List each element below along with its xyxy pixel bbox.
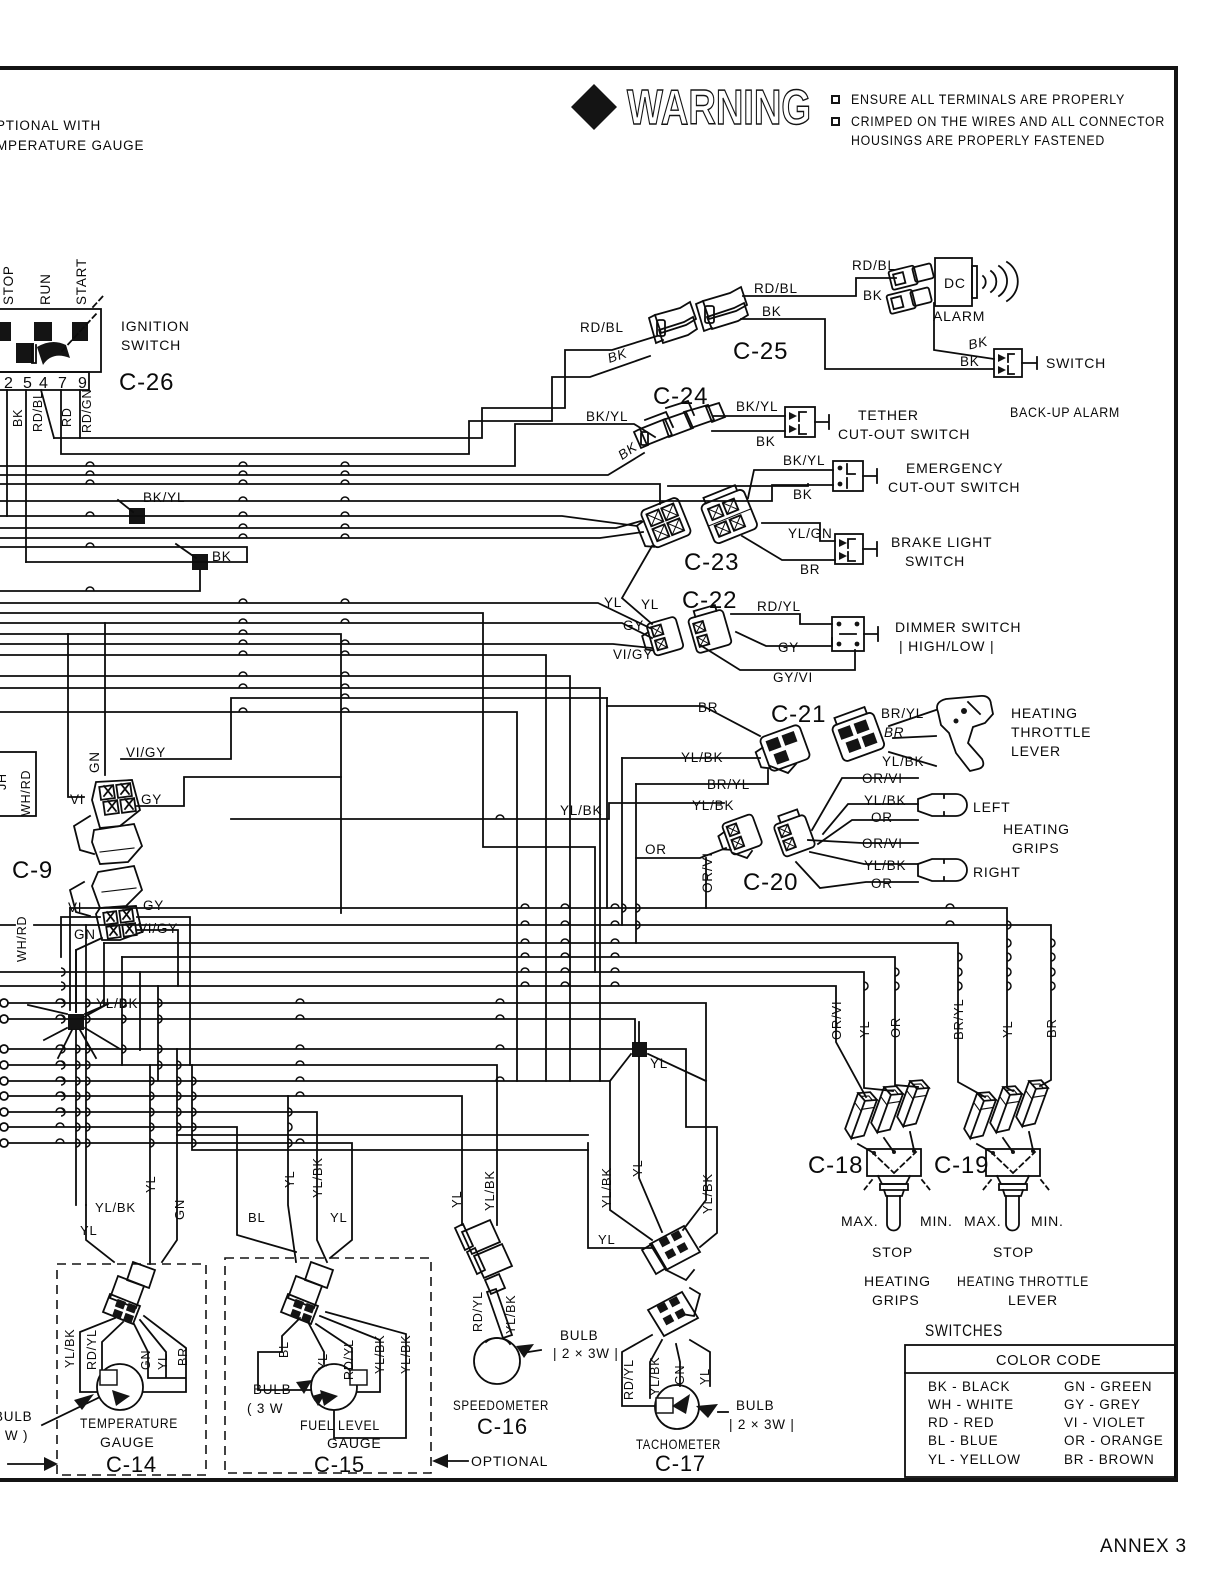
svg-text:C-25: C-25 — [733, 338, 788, 365]
svg-text:ANNEX 3: ANNEX 3 — [1100, 1536, 1187, 1557]
svg-text:SWITCHES: SWITCHES — [925, 1322, 1003, 1340]
svg-text:YL: YL — [857, 1020, 872, 1038]
wire GY/VI to dimmer — [700, 645, 855, 670]
svg-text:COLOR CODE: COLOR CODE — [996, 1353, 1102, 1369]
emergency cut-out switch — [833, 461, 877, 491]
C-18 pin 2 — [869, 1082, 905, 1136]
svg-text:7: 7 — [58, 375, 68, 392]
fuel bulb arrowheads — [296, 1380, 312, 1394]
svg-text:OR: OR — [645, 842, 667, 857]
C-15 connector — [281, 1262, 333, 1324]
bus line y972 YL — [0, 972, 893, 1091]
svg-text:C-9: C-9 — [12, 857, 53, 884]
svg-text:GN: GN — [673, 1365, 687, 1385]
svg-text:RD/BL: RD/BL — [754, 281, 798, 296]
svg-text:STOP: STOP — [993, 1244, 1034, 1260]
wire VI from C-9 — [68, 634, 84, 797]
svg-text:GN: GN — [74, 927, 96, 942]
svg-text:BL: BL — [277, 1341, 291, 1358]
wire YL/BK to C-20 — [231, 803, 724, 819]
C-16 stem — [487, 1289, 512, 1338]
wire BR/YL under C-21 — [636, 770, 768, 784]
C-9 connector upper — [74, 780, 142, 864]
gauge needle arrow — [112, 1390, 130, 1406]
wire hop bumps vertical — [86, 904, 1055, 1147]
junction YL/BK bottom left — [68, 1014, 84, 1030]
svg-text:BK - BLACK: BK - BLACK — [928, 1379, 1010, 1394]
wire YL C-23 to C-22 — [622, 546, 652, 624]
speedo stem cap — [486, 1338, 510, 1344]
svg-text:C-22: C-22 — [682, 587, 737, 614]
svg-text:OR: OR — [871, 810, 893, 825]
bus line y986 OR/VI — [0, 986, 866, 1097]
svg-text:BR/YL: BR/YL — [707, 777, 750, 792]
alarm sound waves — [983, 262, 1018, 301]
dimmer switch — [832, 617, 878, 651]
svg-text:MIN.: MIN. — [1031, 1213, 1064, 1229]
junction BK — [192, 554, 208, 570]
hops col61 76 — [61, 968, 80, 1147]
wire BK to back-up alarm switch — [741, 319, 993, 369]
wire YL/BK C-21 vertical — [621, 758, 623, 925]
svg-text:YL: YL — [449, 1190, 464, 1208]
svg-text:WARNING: WARNING — [627, 81, 811, 135]
svg-text:YL/BK: YL/BK — [681, 750, 723, 765]
bottom bus y1003 — [8, 1003, 706, 1230]
svg-text:GAUGE: GAUGE — [100, 1434, 155, 1450]
svg-text:YL: YL — [156, 1353, 170, 1370]
wire BK to C-25 lower — [61, 356, 650, 454]
svg-text:IGNITION: IGNITION — [121, 318, 190, 334]
warning diamond — [571, 84, 617, 130]
svg-text:YL: YL — [143, 1175, 158, 1193]
svg-text:BULB: BULB — [253, 1382, 291, 1397]
svg-text:HOUSINGS ARE PROPERLY FASTENED: HOUSINGS ARE PROPERLY FASTENED — [851, 133, 1105, 148]
bus line y908 YL — [70, 908, 1013, 1091]
svg-text:( 3 W: ( 3 W — [247, 1401, 283, 1416]
svg-text:GN: GN — [87, 751, 102, 773]
svg-text:RD/YL: RD/YL — [85, 1329, 99, 1370]
gauge terminal — [100, 1370, 117, 1385]
C-20 connector left — [715, 813, 763, 857]
wire hop bumps — [56, 462, 954, 1143]
wire YL to C-22 — [0, 603, 650, 628]
svg-text:YL/BK: YL/BK — [882, 754, 924, 769]
C-9 connector lower — [70, 866, 142, 940]
C-19 switch body — [983, 1149, 1049, 1231]
svg-text:RIGHT: RIGHT — [973, 864, 1021, 880]
svg-text:GY - GREY: GY - GREY — [1064, 1397, 1141, 1412]
svg-text:SWITCH: SWITCH — [121, 337, 181, 353]
svg-text:RD: RD — [60, 407, 74, 427]
right grip icon — [918, 859, 967, 881]
svg-text:GAUGE: GAUGE — [327, 1435, 382, 1451]
fuel gauge circle — [311, 1364, 357, 1410]
svg-text:2: 2 — [4, 375, 14, 392]
svg-text:MPERATURE GAUGE: MPERATURE GAUGE — [0, 138, 144, 153]
C-16 connector — [455, 1220, 512, 1294]
svg-text:BRAKE LIGHT: BRAKE LIGHT — [891, 534, 992, 550]
svg-text:WH/RD: WH/RD — [19, 770, 33, 816]
svg-text:YL/BK: YL/BK — [63, 1329, 77, 1368]
C-17 wire loop — [622, 1335, 710, 1406]
wire BK to C-23 — [0, 484, 660, 504]
wire YL/BK to C-21 — [622, 757, 760, 759]
wire YL/GN to brake — [762, 523, 835, 541]
svg-text:YL: YL — [630, 1159, 645, 1177]
svg-text:BULB: BULB — [560, 1328, 598, 1343]
wire RD/YL to dimmer — [731, 614, 832, 624]
svg-text:GRIPS: GRIPS — [1012, 840, 1060, 856]
svg-text:START: START — [74, 258, 89, 305]
svg-text:VI/GY: VI/GY — [138, 921, 178, 936]
svg-text:RD/YL: RD/YL — [471, 1291, 485, 1332]
svg-text:YL/GN: YL/GN — [788, 526, 833, 541]
C-19 pin leads — [977, 1132, 1033, 1152]
bus line y655 — [0, 655, 546, 1081]
wire t5 vertical — [25, 390, 27, 562]
svg-text:GY/VI: GY/VI — [773, 670, 813, 685]
wire BK to emergency — [668, 484, 808, 486]
svg-text:C-20: C-20 — [743, 869, 798, 896]
wire t4 diagonal — [41, 390, 54, 438]
wire BR to brake — [742, 536, 835, 560]
wire t2 vertical — [6, 390, 8, 516]
wire BK to C-24 — [0, 453, 644, 475]
svg-text:YL/BK: YL/BK — [310, 1157, 325, 1198]
svg-text:C-26: C-26 — [119, 369, 174, 396]
wire BR vertical — [606, 698, 608, 908]
alarm plug 2 — [886, 285, 932, 314]
svg-text:LEVER: LEVER — [1008, 1292, 1058, 1308]
svg-text:BR: BR — [1044, 1018, 1059, 1038]
svg-text:YL/BK: YL/BK — [399, 1335, 413, 1374]
svg-text:BULB: BULB — [0, 1409, 32, 1424]
wire OR/VI vertical — [705, 858, 707, 908]
svg-text:C-24: C-24 — [653, 383, 708, 410]
brake light switch — [835, 534, 877, 564]
svg-text:BR: BR — [698, 700, 718, 715]
C-22 connector left — [639, 616, 684, 658]
tach terminal — [656, 1398, 673, 1413]
wire BK to tether — [712, 430, 785, 432]
wire WH upper — [0, 521, 641, 528]
svg-text:BULB: BULB — [736, 1398, 774, 1413]
svg-text:YL/BK: YL/BK — [482, 1170, 497, 1211]
svg-text:GY: GY — [778, 640, 799, 655]
svg-text:VI/GY: VI/GY — [126, 745, 166, 760]
emergency wire BK/YL from C-23 — [748, 470, 833, 498]
svg-text:YL: YL — [330, 1210, 348, 1225]
svg-text:TEMPERATURE: TEMPERATURE — [80, 1415, 178, 1431]
C-18 pin 1 — [843, 1088, 879, 1142]
wire WH lower — [0, 532, 643, 538]
C-18 pin leads — [858, 1132, 914, 1152]
svg-text:RD/BL: RD/BL — [580, 320, 624, 335]
svg-text:BK/YL: BK/YL — [143, 490, 185, 505]
bottom bus y1135 — [177, 1049, 588, 1135]
svg-text:BACK-UP ALARM: BACK-UP ALARM — [1010, 404, 1120, 420]
svg-text:BK/YL: BK/YL — [586, 409, 628, 424]
junction BK feed diagonal — [176, 544, 196, 558]
svg-text:C-18: C-18 — [808, 1152, 863, 1179]
fuel gauge terminal — [350, 1370, 367, 1385]
svg-text:YL/BK: YL/BK — [95, 1200, 136, 1215]
wire BK/YL to C-24 — [0, 424, 655, 466]
svg-text:C-16: C-16 — [477, 1414, 528, 1439]
C-14 connector — [103, 1262, 155, 1324]
warning bullet 1 — [832, 96, 839, 103]
svg-text:VI/GY: VI/GY — [613, 647, 653, 662]
svg-text:BK/YL: BK/YL — [736, 399, 778, 414]
svg-text:STOP: STOP — [872, 1244, 913, 1260]
svg-text:OR - ORANGE: OR - ORANGE — [1064, 1433, 1164, 1448]
junction YL — [632, 1042, 647, 1057]
svg-text:RD - RED: RD - RED — [928, 1415, 994, 1430]
wire BK junction line — [26, 561, 247, 563]
wire GY to C-22 — [0, 623, 652, 638]
svg-text:BR - BROWN: BR - BROWN — [1064, 1452, 1155, 1467]
bottom bus y1081 — [8, 1081, 652, 1240]
heating grips right wires — [796, 840, 918, 888]
svg-text:HEATING: HEATING — [1011, 705, 1078, 721]
speedometer circle — [474, 1338, 520, 1384]
C-23 connector right — [698, 483, 759, 545]
svg-text:GN - GREEN: GN - GREEN — [1064, 1379, 1152, 1394]
svg-text:YL: YL — [316, 1353, 330, 1370]
svg-text:EMERGENCY: EMERGENCY — [906, 460, 1003, 476]
C-14 dashed box — [57, 1264, 206, 1475]
wire GY to dimmer — [736, 632, 832, 646]
svg-text:YL/BK: YL/BK — [692, 798, 734, 813]
C-18 switch body — [864, 1149, 930, 1231]
C-19 pin 2 — [988, 1082, 1024, 1136]
svg-text:GY: GY — [623, 618, 644, 633]
color code box — [905, 1345, 1175, 1477]
svg-text:BR: BR — [800, 562, 820, 577]
fuel feed YL — [288, 1096, 296, 1262]
bus line y688 — [0, 688, 600, 1081]
svg-text:CUT-OUT SWITCH: CUT-OUT SWITCH — [888, 479, 1020, 495]
svg-text:C-19: C-19 — [934, 1152, 989, 1179]
junction BK/YL — [129, 508, 145, 524]
svg-text:SPEEDOMETER: SPEEDOMETER — [453, 1397, 549, 1413]
svg-text:HEATING THROTTLE: HEATING THROTTLE — [957, 1273, 1089, 1289]
bus line y634 — [0, 634, 341, 913]
svg-text:BK: BK — [756, 434, 776, 449]
C-24 connector — [634, 401, 725, 448]
svg-text:WH - WHITE: WH - WHITE — [928, 1397, 1014, 1412]
svg-text:YL/BK: YL/BK — [864, 793, 906, 808]
C-20 connector right — [771, 808, 816, 858]
junction YL rays — [610, 1022, 706, 1232]
tach needle arrow — [672, 1394, 690, 1414]
svg-text:CUT-OUT SWITCH: CUT-OUT SWITCH — [838, 426, 970, 442]
C-9 lower wires — [61, 917, 190, 1065]
svg-text:BR: BR — [884, 725, 904, 740]
wire BR/YL C-21 vertical — [635, 784, 637, 943]
back-up alarm switch — [994, 349, 1037, 377]
C-21 connector left — [752, 724, 811, 775]
wire VI/GY from C-9 — [121, 698, 607, 759]
tach loop YL — [588, 1143, 651, 1248]
svg-text:VI: VI — [70, 792, 84, 807]
svg-text:DIMMER SWITCH: DIMMER SWITCH — [895, 619, 1021, 635]
svg-text:OR/VI: OR/VI — [829, 1001, 844, 1040]
wire BK/YL to tether — [713, 415, 785, 417]
svg-text:YL: YL — [1000, 1020, 1015, 1038]
svg-text:ENSURE ALL TERMINALS ARE PROPE: ENSURE ALL TERMINALS ARE PROPERLY — [851, 92, 1125, 107]
svg-text:MIN.: MIN. — [920, 1213, 953, 1229]
svg-text:RD/YL: RD/YL — [342, 1339, 356, 1380]
C-19 pin 1 — [962, 1088, 998, 1142]
svg-text:GN: GN — [172, 1199, 187, 1220]
bottom bus y1143 — [8, 1143, 352, 1258]
bottom bus y1065 — [8, 1065, 497, 1225]
svg-text:VI - VIOLET: VI - VIOLET — [1064, 1415, 1146, 1430]
svg-text:OR: OR — [871, 876, 893, 891]
DC alarm box — [935, 258, 972, 306]
svg-text:OPTIONAL: OPTIONAL — [471, 1453, 548, 1469]
C-18 pin 3 — [895, 1076, 931, 1130]
temp feed left — [86, 1205, 114, 1262]
svg-text:MAX.: MAX. — [841, 1213, 878, 1229]
C-23 connector left — [632, 497, 691, 552]
svg-text:PTIONAL WITH: PTIONAL WITH — [0, 118, 101, 133]
svg-text:RD/YL: RD/YL — [622, 1359, 636, 1400]
svg-text:TETHER: TETHER — [858, 407, 919, 423]
svg-text:CRIMPED ON THE WIRES AND ALL C: CRIMPED ON THE WIRES AND ALL CONNECTOR — [851, 114, 1165, 129]
svg-text:GY: GY — [143, 898, 164, 913]
C-17 connector upper — [642, 1226, 700, 1280]
svg-text:RUN: RUN — [38, 273, 53, 305]
svg-text:YL/BK: YL/BK — [700, 1173, 715, 1214]
fuel needle arrow — [320, 1390, 338, 1406]
C-25 connector pair — [649, 287, 748, 343]
bottom bus y1019 — [8, 1019, 635, 1042]
wire GY from C-9 — [137, 777, 341, 806]
bus line y613 — [0, 613, 595, 972]
arrow into C-14 box — [8, 1463, 44, 1465]
svg-text:STOP: STOP — [1, 265, 16, 305]
svg-text:OR/VI: OR/VI — [700, 852, 715, 893]
svg-text:THROTTLE: THROTTLE — [1011, 724, 1091, 740]
svg-text:YL/BK: YL/BK — [504, 1295, 518, 1334]
svg-text:BK: BK — [960, 354, 980, 369]
svg-text:YL - YELLOW: YL - YELLOW — [928, 1452, 1021, 1467]
svg-text:JH: JH — [0, 773, 9, 790]
svg-text:YL: YL — [641, 597, 659, 612]
svg-text:BR/YL: BR/YL — [951, 998, 966, 1040]
temp GN loop — [162, 1135, 177, 1262]
svg-text:C-23: C-23 — [684, 549, 739, 576]
wire t9 vertical — [79, 390, 81, 438]
bottom bus y1150 — [192, 1065, 588, 1150]
bottom bus y1049 — [8, 1049, 717, 1247]
svg-text:FUEL LEVEL: FUEL LEVEL — [300, 1417, 380, 1433]
svg-text:MAX.: MAX. — [964, 1213, 1001, 1229]
heating grips left wires — [812, 778, 918, 844]
C-15 wire loop — [258, 1312, 406, 1438]
C-19 pin 3 — [1014, 1076, 1050, 1130]
wire RD/BL to alarm — [743, 278, 896, 296]
svg-text:GN: GN — [139, 1350, 153, 1370]
svg-text:RD/YL: RD/YL — [757, 599, 801, 614]
bulb arrow line — [42, 1398, 98, 1425]
C-17 connector lower — [648, 1288, 700, 1336]
svg-text:BL: BL — [248, 1210, 266, 1225]
svg-text:YL: YL — [282, 1170, 297, 1188]
C-22 connector right — [686, 603, 732, 653]
bus line y943 BR/YL — [104, 943, 985, 1097]
left edge terminals — [0, 999, 8, 1147]
wire y547 — [0, 547, 247, 562]
svg-text:BK: BK — [793, 487, 813, 502]
svg-text:OR/VI: OR/VI — [862, 836, 903, 851]
wire GN from C-9 up — [104, 623, 106, 775]
svg-text:3 W ): 3 W ) — [0, 1428, 28, 1443]
svg-text:GRIPS: GRIPS — [872, 1292, 920, 1308]
svg-text:YL/BK: YL/BK — [560, 803, 602, 818]
wire OR to C-20 — [636, 848, 726, 858]
svg-text:C-17: C-17 — [655, 1451, 706, 1476]
svg-text:BK: BK — [863, 288, 883, 303]
tachometer circle — [655, 1385, 699, 1429]
svg-text:YL/BK: YL/BK — [864, 858, 906, 873]
svg-text:BK: BK — [762, 304, 782, 319]
svg-text:| HIGH/LOW |: | HIGH/LOW | — [899, 638, 994, 654]
wire BK/YL junction line to C-23 — [0, 516, 637, 526]
bus line y957 OR — [122, 957, 918, 1087]
bus line y712 — [0, 712, 517, 1081]
svg-text:BL - BLUE: BL - BLUE — [928, 1433, 998, 1448]
svg-text:HEATING: HEATING — [864, 1273, 931, 1289]
svg-text:SWITCH: SWITCH — [1046, 355, 1106, 371]
junction feed diagonal — [118, 500, 133, 512]
optional arrow — [432, 1454, 448, 1468]
bottom bus y1112 — [8, 1112, 327, 1262]
svg-text:| 2 × 3W |: | 2 × 3W | — [553, 1346, 619, 1361]
wire BK junction down — [0, 570, 200, 591]
heating throttle lever icon — [937, 696, 993, 771]
svg-text:BR/YL: BR/YL — [881, 706, 924, 721]
svg-text:BK: BK — [11, 409, 25, 427]
ignition switch C-26 — [0, 295, 104, 392]
svg-text:BK/YL: BK/YL — [783, 453, 825, 468]
wire BK to emergency — [0, 485, 833, 501]
wire VI/GY to C-22 — [0, 644, 652, 648]
svg-text:YL/BK: YL/BK — [648, 1357, 662, 1396]
svg-text:5: 5 — [23, 375, 33, 392]
C-14 wire loop — [80, 1316, 186, 1392]
bus line y676 — [0, 676, 570, 1081]
bulb arrowhead — [74, 1394, 94, 1410]
junction YL/BK rays — [28, 950, 120, 1205]
svg-text:YL: YL — [598, 1232, 616, 1247]
svg-text:YL: YL — [80, 1223, 98, 1238]
svg-text:C-21: C-21 — [771, 701, 826, 728]
C-15 dashed box — [225, 1258, 431, 1473]
tether cut-out switch — [785, 407, 829, 437]
svg-text:C-14: C-14 — [106, 1452, 157, 1477]
svg-text:YL: YL — [698, 1368, 712, 1385]
warning bullet 2 — [832, 118, 839, 125]
speedo bulb arrow — [522, 1350, 541, 1353]
svg-text:LEVER: LEVER — [1011, 743, 1061, 759]
svg-text:HEATING: HEATING — [1003, 821, 1070, 837]
heating throttle lever wires — [889, 710, 936, 766]
svg-text:DC: DC — [944, 275, 966, 291]
